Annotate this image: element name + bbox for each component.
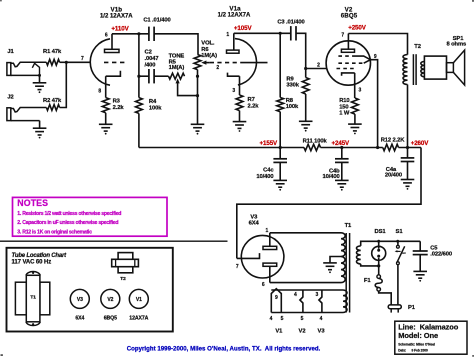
svg-text:R3: R3 <box>113 99 121 105</box>
V1 heater filament (pins 4,5,9) <box>270 289 284 335</box>
node plate/C1/C2/R4 junction <box>137 32 140 35</box>
svg-text:9: 9 <box>275 295 278 301</box>
svg-text:117 VAC 60 Hz: 117 VAC 60 Hz <box>12 259 52 265</box>
transformer T1 HV secondary lower half <box>341 257 345 283</box>
svg-text:3. R12 is 1K on original schem: 3. R12 is 1K on original schematic <box>17 230 92 236</box>
svg-text:J1: J1 <box>7 49 14 55</box>
wire T2 primary to +260V node <box>407 85 409 148</box>
svg-text:2: 2 <box>216 65 219 71</box>
svg-text:2.2k: 2.2k <box>113 105 125 111</box>
svg-text:C2: C2 <box>145 50 152 56</box>
V2 plate (pin 7) <box>341 32 354 52</box>
capacitor C4b 10/400 <box>322 148 348 181</box>
input jack J2 <box>7 95 47 121</box>
capacitor C3 .01/400 <box>277 20 304 41</box>
resistor R9 330k (grid leak) <box>286 69 309 122</box>
svg-text:Model: One: Model: One <box>398 331 438 340</box>
svg-text:5: 5 <box>281 316 284 322</box>
transformer T1 HV secondary upper half <box>341 233 345 257</box>
svg-text:330k: 330k <box>286 83 299 89</box>
wire to C2 <box>139 75 149 77</box>
capacitor C2 .0047/400 <box>145 50 159 84</box>
svg-text:1/2 12AX7A: 1/2 12AX7A <box>218 12 251 18</box>
capacitor C5 .022/600 <box>413 245 452 271</box>
section divider line <box>0 240 228 242</box>
svg-text:7: 7 <box>341 32 344 38</box>
resistor R2 47k <box>43 98 62 110</box>
svg-text:6BQ5: 6BQ5 <box>341 12 358 19</box>
transformer T2 primary winding <box>403 55 408 85</box>
node S1 top junction <box>396 240 399 243</box>
switch S1 <box>395 229 406 264</box>
V1a cathode (pin 3) <box>228 73 240 95</box>
svg-text:3: 3 <box>359 88 362 94</box>
V1a plate (pin 1) <box>226 32 239 53</box>
V1b label <box>100 7 133 20</box>
node primary/DS1/F1 junction <box>377 264 380 267</box>
svg-text:V2: V2 <box>299 328 306 334</box>
R5 wiper arm <box>176 78 198 95</box>
node wiper/ground junction <box>196 94 199 97</box>
ground at R3 <box>99 124 113 134</box>
node plate/R8/C3 junction <box>279 32 282 35</box>
svg-text:1M(A): 1M(A) <box>201 53 217 59</box>
wire +260V to rectifier cathode <box>237 148 421 259</box>
wire R6 bottom to ground <box>197 76 199 124</box>
V2 label <box>341 7 358 20</box>
svg-text:150: 150 <box>339 104 348 110</box>
ground at C5 <box>413 271 427 281</box>
chart tube V2 socket <box>101 289 120 321</box>
V3 plate 1 (top) <box>263 228 277 250</box>
wire +155V / B+ rail <box>139 147 304 149</box>
svg-text:1M(A): 1M(A) <box>169 65 185 71</box>
svg-text:DS1: DS1 <box>375 229 387 235</box>
V2 screen grid (pin 9) <box>338 54 377 63</box>
T2 secondary winding <box>421 62 425 77</box>
T1 primary winding <box>357 246 361 264</box>
svg-text:T1: T1 <box>345 223 352 229</box>
svg-text:C1 .01/400: C1 .01/400 <box>143 17 170 23</box>
svg-text:+110V: +110V <box>111 25 129 32</box>
V2 heater filament (pins 4,5) <box>294 290 305 334</box>
node grid junction R1/R2 <box>65 61 68 64</box>
ground at T1 center tap <box>323 263 337 273</box>
svg-text:6X4: 6X4 <box>249 221 260 227</box>
resistor R12 2.2K <box>381 137 406 150</box>
node C2 tap junction <box>137 75 140 78</box>
svg-text:Date: 9 Feb 2000: Date: 9 Feb 2000 <box>398 349 428 353</box>
node R5/R6 bottom junction <box>196 75 199 78</box>
svg-text:5: 5 <box>301 316 304 322</box>
wire C2 to tone pot <box>154 75 168 77</box>
svg-text:20/400: 20/400 <box>385 173 402 179</box>
svg-text:VOL.: VOL. <box>201 41 215 47</box>
fuse F1 <box>364 266 382 291</box>
tube location chart box <box>7 248 173 332</box>
wire dashed wiper to V1a grid pin 2 <box>210 62 243 64</box>
wire switch line to C5 <box>419 241 421 251</box>
svg-text:T1: T1 <box>30 295 36 301</box>
svg-text:S1: S1 <box>396 229 404 235</box>
svg-text:V2: V2 <box>107 297 113 303</box>
svg-text:/400: /400 <box>145 63 156 69</box>
chart tube V3 socket <box>70 289 89 321</box>
triode V1a 1/2 12AX7A envelope <box>235 39 257 85</box>
svg-text:6X4: 6X4 <box>75 316 84 322</box>
svg-text:100k: 100k <box>149 105 162 111</box>
svg-text:2: 2 <box>317 63 320 69</box>
svg-text:NOTES: NOTES <box>17 198 48 208</box>
svg-text:6: 6 <box>262 282 265 288</box>
capacitor C4a 20/400 <box>385 148 414 180</box>
ground at J1 <box>33 83 47 93</box>
wire J1 sleeve to ground <box>39 75 41 82</box>
node C4b junction <box>340 146 343 149</box>
V1b grid (dashed, pin 7) <box>104 61 125 63</box>
T1 center tap to ground <box>330 257 341 263</box>
svg-text:V3: V3 <box>318 328 326 334</box>
svg-text:2. Capacitors in uF unless oth: 2. Capacitors in uF unless otherwise spe… <box>17 220 118 226</box>
svg-text:3: 3 <box>232 88 235 94</box>
svg-text:R8: R8 <box>286 98 294 104</box>
node +260V junction <box>406 146 409 149</box>
wire R1 to grid node <box>60 61 67 63</box>
wire C3 to V2 grid <box>296 33 327 68</box>
svg-text:V3: V3 <box>77 297 83 303</box>
R6 wiper arm (to V1a grid) <box>201 61 210 65</box>
svg-text:Tube Location Chart: Tube Location Chart <box>12 253 68 259</box>
chart transformer T2 symbol <box>112 253 139 282</box>
wire J2 sleeve to ground <box>39 121 41 128</box>
T1 heater winding <box>343 290 347 313</box>
wire node to V1b grid pin 7 <box>66 61 89 63</box>
ground at R5/R6 <box>191 124 205 134</box>
svg-text:T2: T2 <box>414 44 421 50</box>
wire S1 to plug <box>397 265 399 305</box>
svg-text:C3 .01/400: C3 .01/400 <box>277 20 304 26</box>
wire V1b plate node <box>112 33 148 35</box>
capacitor C4c 10/400 <box>256 148 287 181</box>
V3 label <box>249 215 260 227</box>
junction J1 sleeve-ground <box>38 74 41 77</box>
svg-text:C4c: C4c <box>263 168 274 174</box>
svg-text:J2: J2 <box>7 95 13 101</box>
svg-text:T2: T2 <box>120 276 126 282</box>
svg-text:R4: R4 <box>149 99 157 105</box>
svg-text:R9: R9 <box>286 77 294 83</box>
V3 cathode (pin 7) <box>236 253 260 270</box>
V3 heater filament (pins 3,4) <box>315 290 325 334</box>
svg-text:.022/600: .022/600 <box>430 251 452 257</box>
wire V3 plate1 to T1 HV winding top <box>270 232 341 234</box>
svg-text:100k: 100k <box>286 104 299 110</box>
V2 cathode (pin 3) <box>342 73 362 98</box>
T2 core <box>413 54 416 85</box>
svg-text:1: 1 <box>266 228 269 234</box>
svg-text:R7: R7 <box>248 97 255 103</box>
resistor R8 100k (V1a plate load) <box>277 33 299 147</box>
capacitor C1 .01/400 <box>143 17 170 41</box>
potentiometer R5 TONE 1M(A) <box>169 53 185 79</box>
wire V1a plate to C3/R8 node <box>234 32 290 34</box>
V1a label <box>218 6 251 19</box>
svg-text:8 ohms: 8 ohms <box>446 41 466 47</box>
svg-text:R11 100k: R11 100k <box>303 138 328 144</box>
svg-text:6: 6 <box>105 33 108 39</box>
svg-text:7: 7 <box>81 56 84 62</box>
potentiometer R6 VOL 1M(A) <box>194 41 217 76</box>
svg-text:.0047: .0047 <box>145 56 159 62</box>
input jack J1 <box>7 49 47 75</box>
svg-text:8: 8 <box>98 89 101 95</box>
svg-text:R10: R10 <box>339 98 349 104</box>
notes box <box>13 197 168 236</box>
svg-text:+155V: +155V <box>260 140 279 147</box>
svg-text:1. Resistors 1/2 watt unless o: 1. Resistors 1/2 watt unless otherwise s… <box>17 211 121 217</box>
wire V3 plate2 to T1 HV winding bottom <box>270 282 341 284</box>
svg-text:Copyright 1999-2000, Miles O'N: Copyright 1999-2000, Miles O'Neal, Austi… <box>127 345 321 352</box>
resistor R4 100k (V1b plate load) <box>136 98 163 148</box>
plug P1 <box>388 305 416 313</box>
svg-text:1 W: 1 W <box>339 110 350 116</box>
ground at R7 <box>233 122 247 132</box>
svg-text:4: 4 <box>270 316 273 322</box>
wire screen to +245V rail <box>370 60 377 148</box>
pilot lamp DS1 <box>372 229 387 266</box>
svg-text:+260V: +260V <box>411 140 430 147</box>
svg-text:R12 2.2K: R12 2.2K <box>381 137 406 143</box>
svg-text:+105V: +105V <box>234 25 253 32</box>
V2 control grid (pin 2, dashed) <box>337 68 357 70</box>
svg-text:+250V: +250V <box>348 25 367 32</box>
svg-text:V1: V1 <box>275 328 283 334</box>
resistor R1 47k <box>43 49 62 65</box>
ground at R10 <box>348 124 362 134</box>
svg-text:2.2k: 2.2k <box>248 103 260 109</box>
resistor R11 100k <box>303 138 328 150</box>
svg-text:3: 3 <box>315 292 318 298</box>
svg-text:F1: F1 <box>364 278 371 284</box>
ground at C4b <box>335 180 349 190</box>
svg-text:6BQ5: 6BQ5 <box>104 316 117 322</box>
triode V1b 1/2 12AX7A envelope <box>90 39 110 85</box>
svg-text:4: 4 <box>294 292 297 298</box>
ground at C4a <box>401 180 415 190</box>
T1 core <box>346 233 349 313</box>
wire heater top rail <box>271 289 343 291</box>
V3 plate 2 (pin 6, bottom) <box>262 263 277 288</box>
wire F1 to plug <box>379 291 392 305</box>
wire T1 primary bottom to DS1/F1 junction <box>361 264 379 266</box>
node screen supply junction <box>376 146 379 149</box>
V1b plate (pin 6) <box>105 33 120 53</box>
svg-text:1/2 12AX7A: 1/2 12AX7A <box>100 13 133 19</box>
ground at R9 <box>299 121 313 131</box>
resistor R3 2.2k <box>102 98 124 125</box>
wire V2 plate to T2 primary <box>348 34 407 55</box>
svg-text:10/400: 10/400 <box>322 174 339 180</box>
wire C1 to volume pot <box>154 34 198 55</box>
svg-text:R2 47k: R2 47k <box>43 98 62 104</box>
svg-text:+245V: +245V <box>332 140 351 147</box>
svg-text:P1: P1 <box>408 305 416 311</box>
wire T1 primary top to switch line <box>361 241 421 246</box>
speaker SP1 8 ohms <box>424 36 466 85</box>
svg-text:R6: R6 <box>201 47 209 53</box>
svg-text:V1: V1 <box>136 297 142 303</box>
pentode V2 6BQ5 envelope <box>326 41 370 85</box>
svg-text:Schematic: Miles O'Neal: Schematic: Miles O'Neal <box>398 343 435 347</box>
resistor R10 150 1W <box>339 98 358 124</box>
wire R2 up to grid node <box>60 62 67 107</box>
svg-text:7: 7 <box>236 264 239 270</box>
svg-text:R1 47k: R1 47k <box>43 49 62 55</box>
wire heater bottom rail <box>271 312 343 314</box>
ground at J2 <box>33 128 47 138</box>
ground at C4c <box>273 180 287 190</box>
corner marks <box>0 0 2 1</box>
title block box <box>395 321 467 354</box>
node C4c junction <box>279 146 282 149</box>
chart tube V1 socket <box>129 289 148 321</box>
svg-text:4: 4 <box>320 316 323 322</box>
wire plate node down to C2 and R4 <box>138 34 140 98</box>
resistor R7 2.2k <box>236 95 259 121</box>
wire R12 to +260V node <box>399 147 422 149</box>
svg-text:10/400: 10/400 <box>256 174 273 180</box>
V1b cathode (pin 8) <box>98 71 120 98</box>
rectifier V3 6X4 envelope <box>241 235 284 278</box>
chart transformer T1 symbol <box>15 272 49 326</box>
svg-text:12AX7A: 12AX7A <box>129 316 148 322</box>
node R9 top junction <box>304 67 307 70</box>
wire rail R11 to R12 <box>321 147 383 149</box>
node DS1 top junction <box>377 240 380 243</box>
svg-text:1: 1 <box>226 32 229 38</box>
V1a grid stub (pin 2) <box>243 62 268 64</box>
